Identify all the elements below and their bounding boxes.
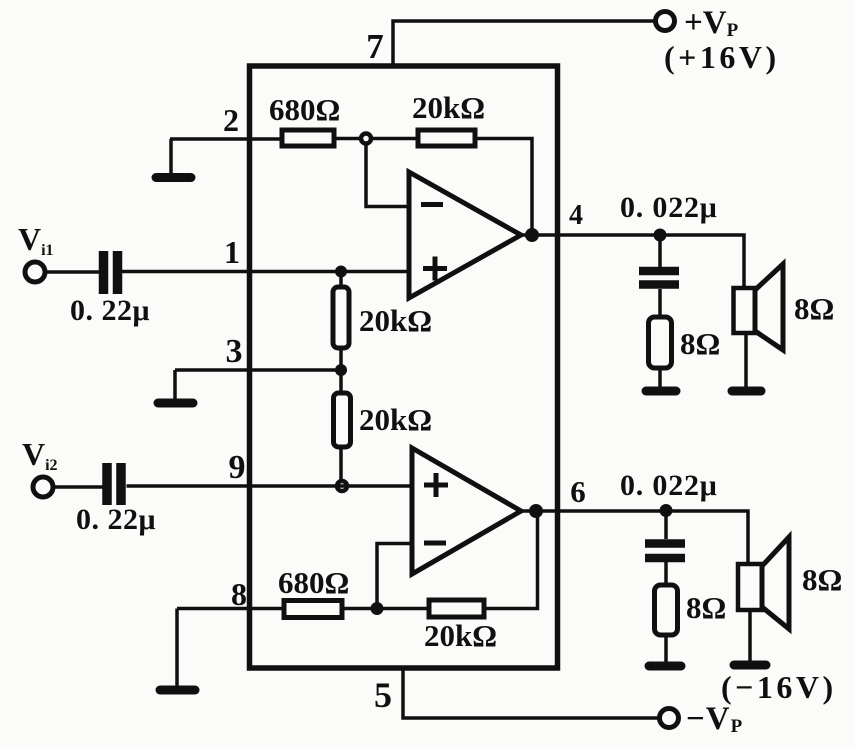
speaker LS1 — [734, 288, 756, 333]
svg-text:680Ω: 680Ω — [269, 92, 340, 127]
wire feedback inverting input U1b — [377, 544, 412, 609]
svg-text:(+16V): (+16V) — [664, 39, 780, 75]
wire LS1 to ground — [744, 333, 748, 387]
ground G2 — [173, 370, 177, 399]
wire pin3 — [175, 368, 341, 372]
capacitor C3 0.022u — [639, 267, 679, 276]
wire R1 to node — [334, 137, 360, 141]
node pin1/R3 junction — [335, 266, 347, 278]
plus sign U1b — [424, 483, 448, 488]
IC U1 outline — [250, 66, 558, 668]
wire R6 to output node — [484, 511, 538, 609]
svg-text:8Ω: 8Ω — [680, 326, 720, 361]
resistor R2 20k ohm — [418, 130, 475, 146]
terminal Vi2 — [33, 477, 53, 497]
wire pin1 to plus input — [122, 270, 409, 274]
wire R7 to ground — [658, 368, 662, 387]
node output2 — [529, 504, 543, 518]
svg-text:20kΩ: 20kΩ — [359, 402, 432, 437]
wire feedback n1 to inverting input — [366, 144, 409, 207]
svg-text:6: 6 — [570, 474, 586, 509]
node pin3 junction — [335, 364, 347, 376]
wire node to C3 — [658, 235, 662, 267]
ground G6 — [649, 662, 681, 671]
wire R8 to ground — [664, 635, 668, 662]
speaker LS2 — [738, 564, 762, 610]
wire R4 to node n2 — [339, 447, 343, 481]
resistor R5 680 ohm — [284, 601, 342, 618]
svg-text:8: 8 — [231, 576, 247, 612]
wire Vi1 to C1 — [45, 270, 99, 274]
svg-text:3: 3 — [226, 333, 243, 370]
wire R3 to node3 — [339, 348, 343, 370]
svg-text:0. 22μ: 0. 22μ — [76, 503, 156, 536]
resistor R7 8 ohm — [649, 317, 672, 368]
capacitor C2 0.22u — [102, 463, 112, 505]
wire C4 to R8 — [664, 562, 668, 585]
minus sign U1a — [421, 202, 443, 207]
svg-text:0. 22μ: 0. 22μ — [70, 294, 150, 327]
ground G3 — [175, 609, 179, 687]
svg-text:1: 1 — [224, 234, 240, 270]
ground G5 — [732, 387, 761, 396]
node zobel1 — [654, 229, 667, 242]
node feedback junction — [371, 602, 384, 615]
wire R5 to node — [342, 607, 429, 611]
svg-text:5: 5 — [374, 675, 392, 715]
ground G4 — [646, 387, 676, 396]
wire pin7 to +Vp — [393, 21, 655, 66]
terminal -Vp — [660, 709, 679, 728]
svg-text:8Ω: 8Ω — [686, 590, 726, 625]
svg-text:9: 9 — [229, 449, 246, 486]
svg-text:(−16V): (−16V) — [721, 669, 837, 705]
wire R2 to output — [475, 139, 532, 236]
svg-text:20kΩ: 20kΩ — [359, 303, 432, 338]
svg-text:20kΩ: 20kΩ — [412, 90, 485, 125]
svg-text:0. 022μ: 0. 022μ — [620, 191, 718, 224]
wire node to C4 — [664, 511, 668, 539]
node output1 — [525, 228, 539, 242]
wire output1 — [521, 235, 744, 288]
svg-text:8Ω: 8Ω — [802, 562, 842, 597]
svg-text:20kΩ: 20kΩ — [424, 618, 497, 653]
wire pin9 to plus input — [127, 484, 413, 488]
ground G1 — [169, 139, 173, 174]
capacitor C1 0.22u — [99, 251, 109, 294]
wire node to R2 — [370, 137, 418, 141]
capacitor C4 0.022u — [645, 539, 685, 548]
ground G7 — [734, 661, 766, 670]
node n2 (open) — [337, 481, 347, 491]
resistor R4 20k ohm vertical — [339, 370, 343, 393]
svg-text:8Ω: 8Ω — [794, 291, 834, 326]
wire pin5 to -Vp — [403, 668, 660, 718]
wire pin2 — [170, 137, 282, 141]
op-amp U1a — [409, 172, 521, 298]
wire C3 to R7 — [658, 289, 662, 317]
svg-text:0. 022μ: 0. 022μ — [620, 469, 718, 502]
wire LS2 to ground — [748, 610, 752, 661]
node n1 (open) — [361, 134, 371, 144]
terminal +Vp — [656, 12, 675, 31]
svg-text:7: 7 — [366, 27, 384, 66]
svg-text:680Ω: 680Ω — [278, 565, 349, 600]
minus sign U1b — [424, 541, 446, 546]
node zobel2 — [660, 504, 673, 517]
svg-text:4: 4 — [569, 200, 583, 231]
op-amp U1b — [412, 448, 521, 574]
svg-text:2: 2 — [223, 102, 239, 138]
resistor R6 20k ohm — [429, 600, 484, 617]
wire output2 — [521, 511, 748, 564]
wire Vi2 to C2 — [53, 485, 104, 489]
resistor R3 20k ohm vertical — [339, 272, 343, 288]
terminal Vi1 — [25, 262, 45, 282]
resistor R8 8 ohm — [655, 585, 678, 635]
resistor R1 680 ohm — [282, 130, 334, 146]
wire pin8 — [177, 607, 284, 611]
plus sign U1a — [423, 266, 447, 271]
